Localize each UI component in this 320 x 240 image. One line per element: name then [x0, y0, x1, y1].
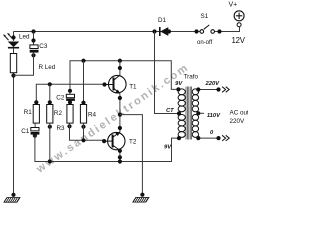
node T2 collector: [118, 149, 122, 153]
terminal arrows 220V: [222, 87, 229, 93]
capacitor C3: [30, 43, 48, 53]
svg-text:CT: CT: [166, 108, 174, 114]
resistor R4: [80, 105, 96, 124]
transistor T1: [105, 75, 138, 94]
resistor R3: [57, 105, 74, 132]
node R4 top tap on rail: [81, 59, 85, 63]
svg-text:V+: V+: [229, 2, 238, 9]
wire R1 to C1: [34, 123, 36, 127]
wire R2 bottom to bus: [49, 123, 51, 161]
node R4 top: [81, 101, 85, 105]
svg-text:D1: D1: [158, 17, 167, 24]
wire secondary 0 output: [198, 137, 219, 139]
node emitter junction: [118, 113, 122, 117]
wire R4 bottom to T2 base line: [83, 123, 85, 140]
wire R3 bottom to T2 base line: [70, 123, 105, 140]
node T1 emitter: [118, 96, 122, 100]
node ground left junction: [11, 193, 15, 197]
node R2 top: [48, 100, 52, 104]
svg-text:12V: 12V: [232, 36, 246, 45]
svg-text:C2: C2: [56, 94, 65, 101]
switch S1 on-off: [197, 13, 215, 46]
node secondary bottom tap: [196, 136, 200, 140]
node C3 bottom: [31, 53, 35, 57]
svg-text:R Led: R Led: [39, 64, 56, 71]
ground left: [4, 198, 20, 203]
wire D1 to CT: [155, 32, 180, 114]
node secondary top tap: [196, 87, 200, 91]
node R3 bottom: [67, 124, 71, 128]
wire secondary 110V tap: [198, 112, 204, 114]
node primary top tap 9V: [176, 87, 180, 91]
svg-text:S1: S1: [201, 13, 209, 20]
transformer Trafo: [184, 74, 199, 140]
svg-text:Trafo: Trafo: [184, 74, 199, 81]
node T2 base terminal: [102, 139, 106, 143]
node C2 top terminal: [68, 89, 72, 93]
node T2 emitter: [118, 126, 122, 130]
node T1 base terminal: [102, 82, 106, 86]
wire R2 branch: [49, 84, 51, 104]
node R3 top: [68, 100, 72, 104]
terminal arrows 0: [222, 135, 229, 141]
node switch right terminal: [217, 29, 221, 33]
wire LED cathode to resistor: [13, 48, 15, 54]
wire T2 collector to bus: [119, 150, 121, 162]
resistor R2: [47, 105, 63, 124]
secondary winding: [192, 89, 198, 138]
node C3 top: [31, 38, 35, 42]
wire emitters to ground: [120, 115, 142, 195]
svg-text:on-off: on-off: [197, 40, 213, 46]
node D1 anode: [167, 29, 171, 33]
svg-text:9V: 9V: [175, 81, 183, 87]
svg-text:9V: 9V: [164, 145, 172, 151]
node junction R4 and T2 base line: [81, 138, 85, 142]
node T2 collector lower: [118, 155, 122, 159]
capacitor C1: [21, 128, 39, 136]
primary winding: [178, 89, 185, 138]
wire C3 bottom to LED branch: [14, 53, 34, 76]
resistor R1: [24, 105, 40, 124]
node T1 collector: [118, 66, 122, 70]
svg-text:220V: 220V: [205, 81, 221, 87]
svg-text:R3: R3: [57, 125, 66, 132]
svg-text:R4: R4: [88, 112, 97, 119]
svg-text:AC out: AC out: [230, 110, 249, 117]
wire LED branch from rail: [13, 32, 15, 42]
svg-text:220V: 220V: [230, 118, 246, 125]
node C1 bottom: [33, 134, 37, 138]
wire C2 to R3: [69, 101, 71, 104]
svg-text:Led: Led: [19, 33, 30, 40]
svg-text:C3: C3: [39, 43, 48, 50]
capacitor C2: [56, 94, 75, 101]
svg-text:T2: T2: [129, 139, 137, 146]
node R2 top tap: [48, 82, 52, 86]
wire T1 collector rail: [70, 61, 178, 95]
wire secondary 220V output: [198, 89, 219, 91]
wire top rail: [14, 26, 240, 31]
node T1 collector tap on rail: [118, 59, 122, 63]
node R2 bus junction: [48, 159, 52, 163]
node switch left terminal: [194, 29, 198, 33]
node 110V tap: [196, 111, 200, 115]
node 220V output terminal: [216, 87, 220, 91]
ground right: [133, 197, 149, 202]
wire T1 emitter to T2 emitter: [119, 94, 121, 133]
wire R Led bottom to ground: [13, 73, 15, 195]
LED: [3, 33, 30, 48]
svg-text:C1: C1: [21, 128, 30, 135]
node primary bottom tap 9V: [177, 136, 181, 140]
svg-text:110V: 110V: [207, 113, 221, 119]
svg-text:T1: T1: [129, 84, 137, 91]
transistor T2: [104, 132, 137, 151]
wire R4 branch: [83, 61, 85, 105]
node T2 collector bus junction: [118, 159, 122, 163]
node LED anode: [11, 35, 15, 39]
svg-text:R2: R2: [54, 110, 63, 117]
node 0 output terminal: [216, 136, 220, 140]
node R2 bottom: [48, 125, 52, 129]
node ground right junction: [140, 193, 144, 197]
node C3 tap on rail: [31, 29, 35, 33]
node R1 top: [34, 100, 38, 104]
wire C1 bottom to bus: [35, 135, 179, 162]
node R Led bottom junction: [11, 73, 15, 77]
watermark www.sandielektronik.com: [34, 61, 192, 176]
resistor R Led: [10, 54, 56, 73]
wire T1 collector stub: [119, 61, 121, 76]
node R4 bottom: [81, 125, 85, 129]
svg-text:R1: R1: [24, 109, 33, 116]
battery terminal V+: [229, 2, 246, 45]
wire T1 base line: [36, 84, 104, 104]
node primary CT tap: [177, 111, 181, 115]
wire C3 branch: [33, 32, 35, 45]
node D1 cathode junction: [152, 29, 156, 33]
diode D1: [158, 17, 168, 36]
